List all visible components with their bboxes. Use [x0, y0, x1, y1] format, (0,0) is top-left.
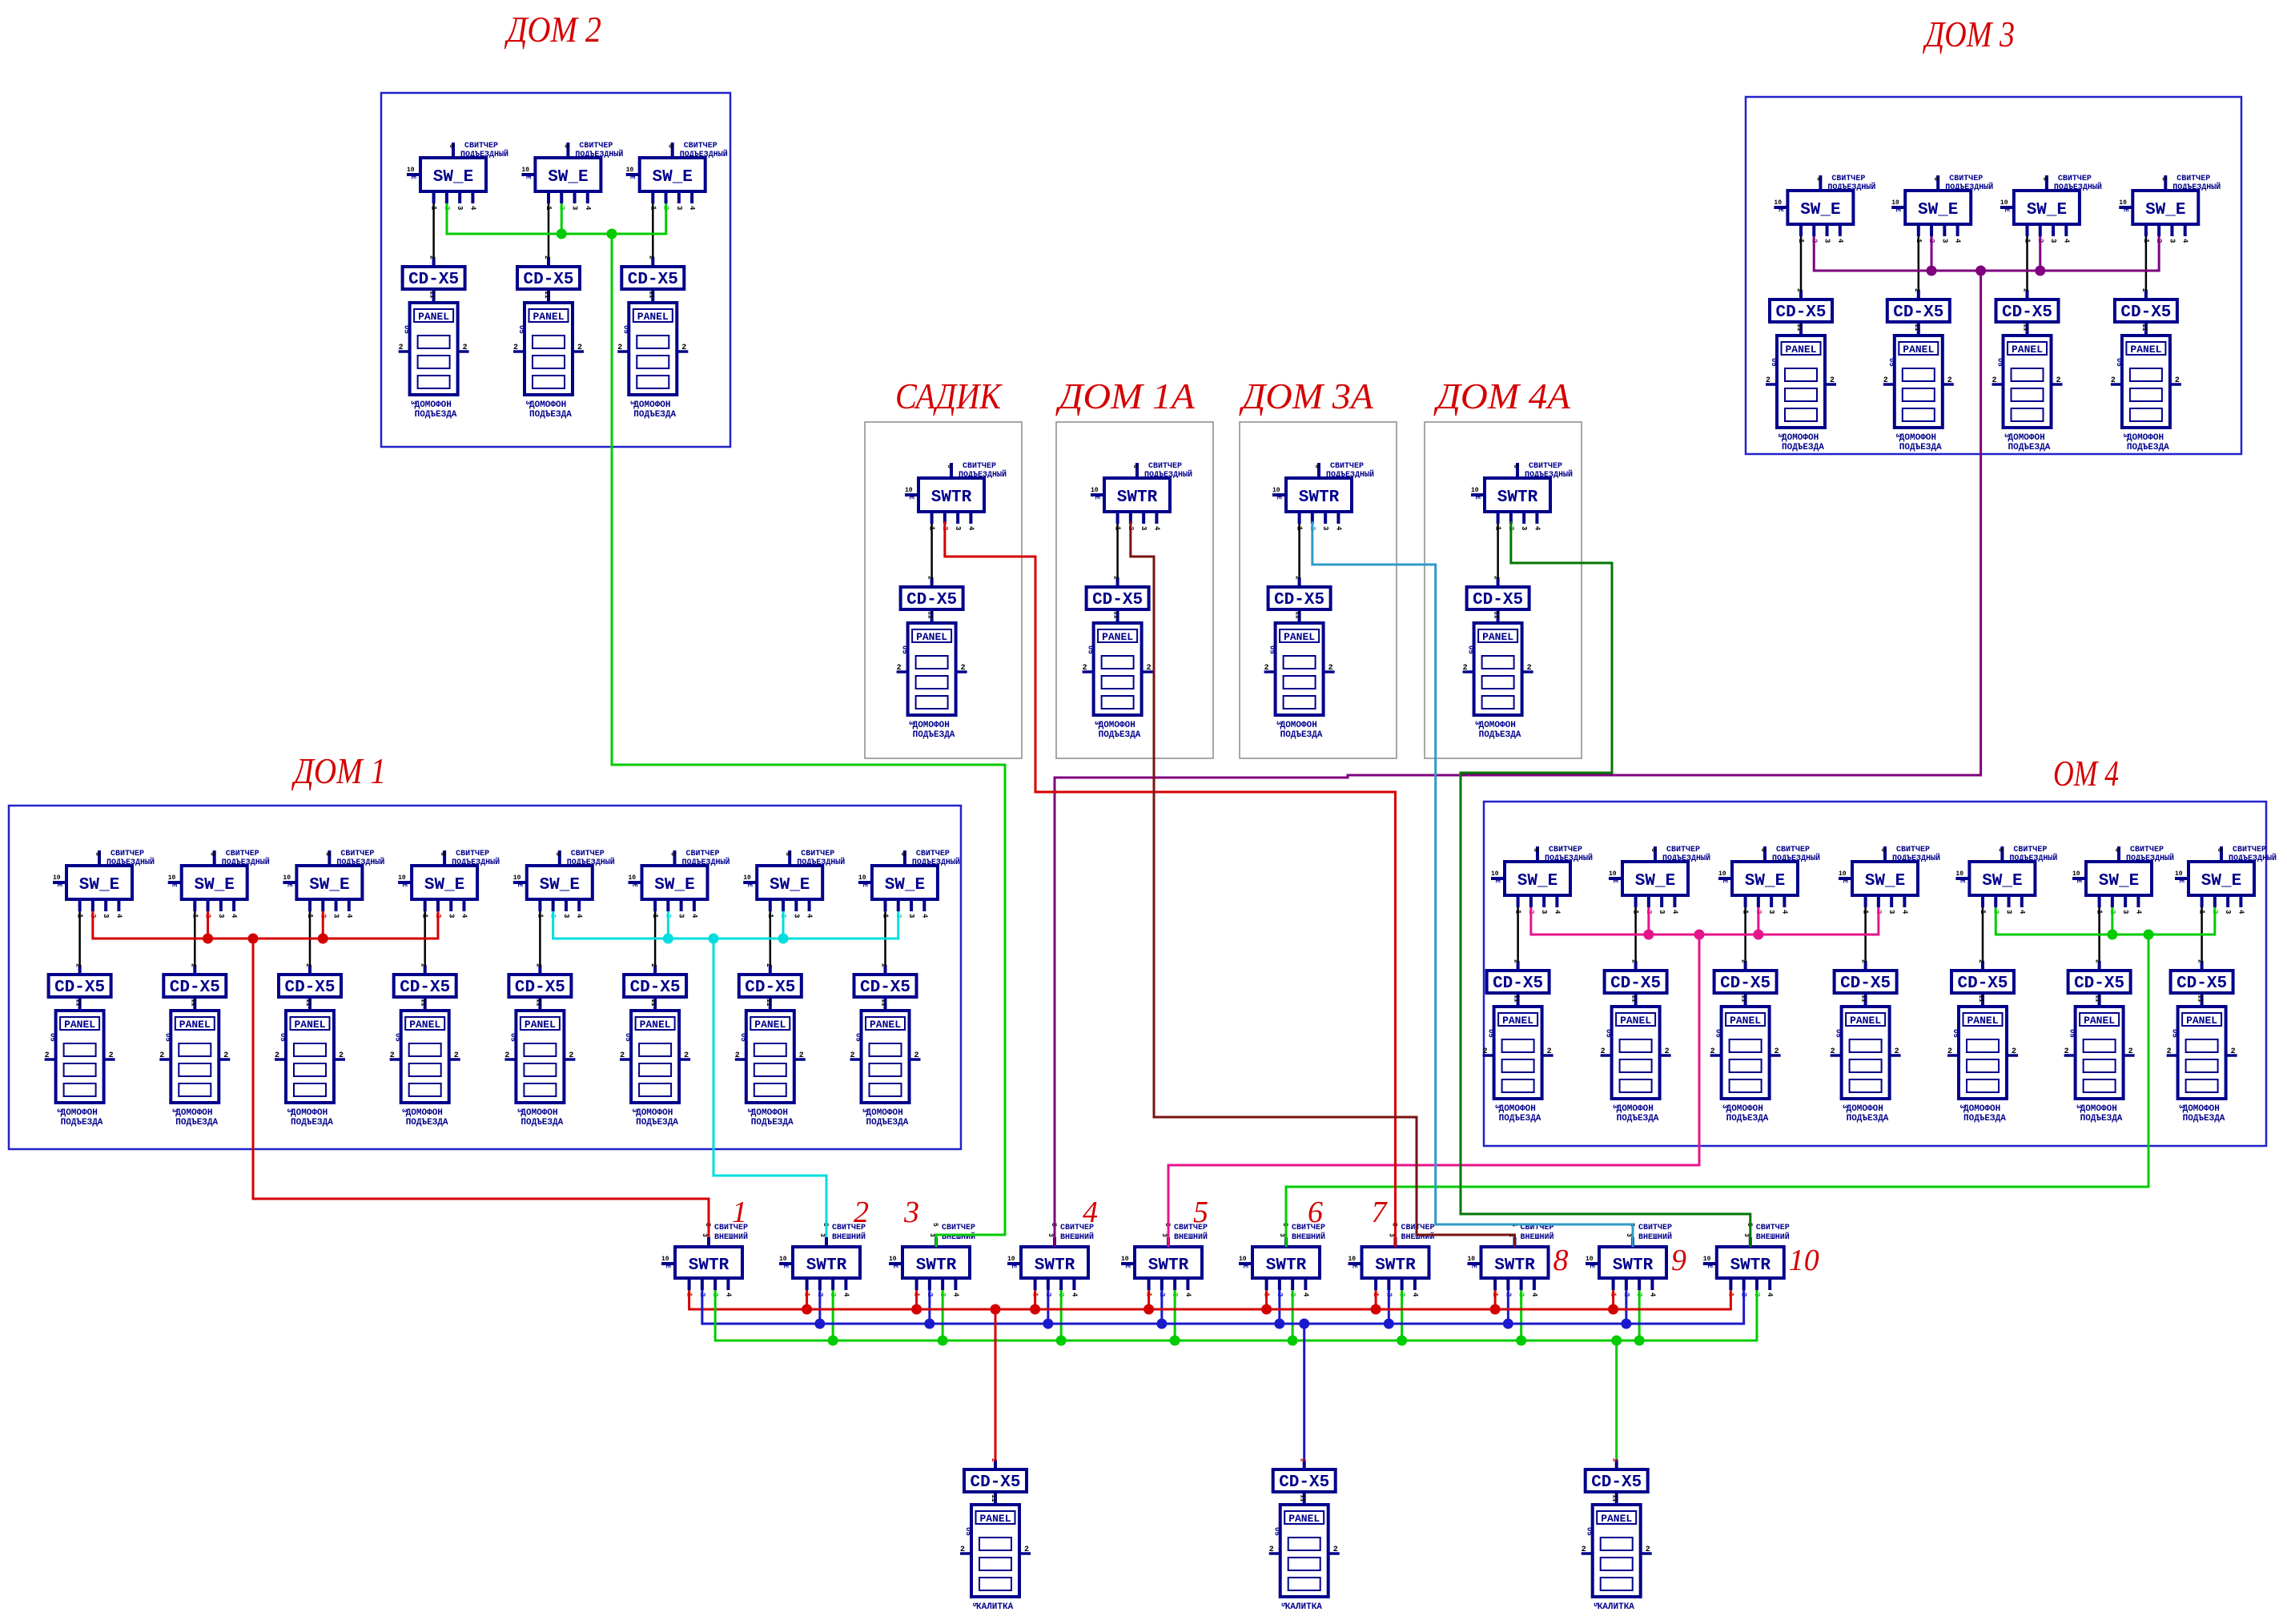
CD-X5 ДОМ 4А U1 top pin	[1493, 576, 1500, 587]
svg-text:PANEL: PANEL	[64, 1019, 95, 1031]
wire ДОМ1 U3 pin1 to CD-X5	[309, 911, 311, 965]
svg-text:3: 3	[1473, 721, 1481, 725]
svg-text:2: 2	[2140, 288, 2148, 292]
svg-text:ПОДЪЕЗДА: ПОДЪЕЗДА	[866, 1118, 909, 1128]
svg-text:4: 4	[1301, 1292, 1309, 1297]
svg-text:ПОДЪЕЗДА: ПОДЪЕЗДА	[415, 410, 457, 420]
svg-text:10: 10	[1891, 199, 1899, 207]
junction ДОМ 1 cyan bus unit6	[663, 934, 673, 944]
switch SW_E ДОМ4 U5	[1969, 862, 2035, 895]
panel ДОМ4 U1 right pin 2	[1542, 1047, 1553, 1056]
panel gate blue right pin 2	[1328, 1546, 1340, 1554]
converter CD-X5 ДОМ4 U6	[2068, 971, 2131, 993]
svg-text:U5: U5	[1996, 358, 2004, 367]
svg-text:2: 2	[1112, 576, 1119, 580]
svg-text:2: 2	[1582, 1546, 1586, 1554]
SWTR 3 bottom pin 3	[939, 1278, 947, 1296]
panel САДИК U1 left pin 2	[897, 664, 908, 673]
panel PANEL ДОМ4 U2	[1612, 1007, 1660, 1099]
svg-text:2: 2	[1795, 288, 1803, 292]
svg-text:SW_E: SW_E	[1865, 872, 1905, 890]
svg-text:4: 4	[1836, 239, 1844, 243]
converter CD-X5 ДОМ4 U1	[1487, 971, 1549, 993]
CD-X5 ДОМ3 U3 bottom pin 11	[2022, 322, 2029, 336]
ДОМ3 U1 left pin 10	[1774, 199, 1787, 212]
switch SWTR ДОМ 4А U1	[1485, 478, 1550, 512]
svg-text:2: 2	[1547, 1047, 1552, 1056]
svg-text:ПОДЪЕЗДНЫЙ: ПОДЪЕЗДНЫЙ	[1945, 181, 1993, 192]
svg-text:ПОДЪЕЗДА: ПОДЪЕЗДА	[2008, 443, 2051, 452]
ДОМ4 U2 left pin 10	[1609, 870, 1622, 883]
svg-text:4: 4	[1954, 239, 1962, 243]
junction blue bus SWTR 9	[1621, 1319, 1631, 1329]
ДОМ3 U1 bottom pin 4	[1836, 224, 1844, 243]
wire green bus external	[715, 1290, 1757, 1341]
ДОМ 3А U1 top pin 6	[1313, 463, 1320, 478]
CD-X5 ДОМ1 U4 top pin	[420, 963, 427, 975]
junction ДОМ 4 green bus drop	[2144, 930, 2154, 940]
svg-text:ДОМОФОН: ДОМОФОН	[2127, 433, 2164, 443]
CD-X5 ДОМ4 U6 top pin	[2094, 959, 2101, 971]
SWTR 2 bottom pin 4	[842, 1278, 850, 1297]
ДОМ2 U1 left pin 10	[407, 167, 420, 179]
svg-text:11: 11	[880, 999, 887, 1007]
svg-text:ДОМОФОН: ДОМОФОН	[529, 400, 566, 410]
junction red bus SWTR 8	[1490, 1304, 1501, 1315]
svg-text:4: 4	[1184, 1292, 1192, 1297]
svg-text:11: 11	[543, 291, 550, 299]
panel ДОМ2 U3 right pin 2	[677, 344, 688, 352]
svg-text:2: 2	[420, 963, 427, 967]
ДОМ2 U1 bottom pin 2	[443, 191, 451, 210]
CD-X5 ДОМ1 U2 bottom pin 11	[189, 997, 196, 1011]
ДОМ4 U5 left pin 10	[1955, 870, 1969, 883]
svg-text:3: 3	[1625, 1233, 1632, 1237]
SWTR 10 bottom pin 2	[1740, 1278, 1748, 1296]
ДОМ2 U1 bottom pin 3	[456, 191, 464, 210]
label ДОМОФОН ПОДЪЕЗДА ДОМ 3А U1	[1275, 721, 1323, 740]
ДОМ3 U2 bottom pin 1	[1915, 224, 1923, 243]
svg-text:3: 3	[1047, 1233, 1054, 1237]
ДОМ 3А U1 left pin 10	[1272, 487, 1286, 500]
wire red SWTR 9 pin1 to bus	[1612, 1290, 1614, 1309]
svg-text:2: 2	[1913, 288, 1920, 292]
junction ДОМ 1 cyan bus unit7	[778, 934, 789, 944]
wire blue SWTR 2 pin2 to bus	[818, 1290, 821, 1324]
ДОМ1 U6 left pin 10	[629, 874, 642, 887]
svg-text:10: 10	[743, 874, 751, 882]
switch SWTR 8	[1481, 1247, 1549, 1278]
label свитчер ДОМ3 U1	[1827, 175, 1875, 192]
wire blue SWTR 5 pin2 to bus	[1160, 1290, 1163, 1324]
wire ДОМ2 U3 pin1 to CD-X5	[652, 203, 654, 257]
svg-text:CD-X5: CD-X5	[906, 591, 957, 609]
svg-text:3: 3	[1742, 1233, 1750, 1237]
panel PANEL ДОМ1 U7	[746, 1011, 794, 1103]
svg-text:10: 10	[53, 874, 61, 882]
svg-text:СВИТЧЕР: СВИТЧЕР	[2058, 175, 2092, 183]
svg-text:11: 11	[1611, 1494, 1618, 1502]
converter CD-X5 ДОМ4 U5	[1951, 971, 2014, 993]
svg-text:3: 3	[818, 1233, 826, 1237]
ДОМ4 U2 bottom pin 4	[1670, 895, 1678, 915]
label ДОМОФОН ПОДЪЕЗДА ДОМ3 U2	[1894, 433, 1942, 452]
panel ДОМ1 U3 right pin 2	[334, 1051, 345, 1060]
svg-text:6: 6	[1512, 464, 1519, 468]
label свитчер ДОМ1 U5	[567, 850, 615, 867]
label свитчер ДОМ1 U2	[222, 850, 270, 867]
label ДОМОФОН ПОДЪЕЗДА ДОМ4 U3	[1721, 1104, 1769, 1124]
panel ДОМ 1А U1 right pin 2	[1142, 664, 1153, 673]
svg-text:6: 6	[667, 144, 674, 148]
svg-text:ПОДЪЕЗДНЫЙ: ПОДЪЕЗДНЫЙ	[575, 148, 623, 159]
svg-text:CD-X5: CD-X5	[523, 271, 573, 289]
svg-text:E: E	[1351, 1264, 1358, 1268]
ДОМ1 U8 bottom pin 3	[907, 899, 915, 918]
ДОМ2 U1 top pin 6	[448, 143, 455, 158]
svg-text:U5: U5	[854, 1033, 862, 1042]
ДОМ4 U2 top pin 6	[1650, 846, 1657, 862]
panel ДОМ1 U1 right pin 2	[104, 1051, 115, 1060]
svg-text:CD-X5: CD-X5	[1610, 975, 1661, 993]
panel PANEL gate blue	[1280, 1505, 1328, 1597]
junction ДОМ 4 pink bus drop	[1694, 930, 1705, 940]
svg-text:U5: U5	[2068, 1029, 2076, 1038]
svg-text:SW_E: SW_E	[1800, 201, 1840, 219]
wire red ДОМ 1 pin2 unit2	[207, 911, 209, 939]
switch SW_E ДОМ2 U2	[535, 158, 601, 191]
svg-text:E: E	[1894, 208, 1901, 212]
wire red ДОМ 1 pin2 unit3	[322, 911, 324, 939]
svg-text:ДОМ 2: ДОМ 2	[504, 9, 601, 50]
svg-text:ПОДЪЕЗДА: ПОДЪЕЗДА	[636, 1118, 678, 1128]
label КАЛИТКА gate blue	[1280, 1602, 1323, 1612]
converter CD-X5 ДОМ3 U1	[1770, 299, 1832, 322]
svg-text:E: E	[746, 883, 753, 887]
svg-text:11: 11	[1299, 1494, 1306, 1502]
wire ДОМ1 U6 pin1 to CD-X5	[654, 911, 657, 965]
CD-X5 ДОМ4 U1 top pin	[1513, 959, 1520, 971]
ДОМ3 U4 bottom pin 4	[2181, 224, 2189, 243]
svg-text:E: E	[1721, 879, 1728, 883]
svg-text:3: 3	[1658, 910, 1666, 914]
converter CD-X5 gate blue	[1273, 1469, 1336, 1492]
svg-text:6: 6	[2216, 848, 2223, 852]
wire ДОМ4 U7 pin1 to CD-X5	[2201, 907, 2203, 961]
svg-text:3: 3	[447, 914, 455, 918]
svg-text:E: E	[2177, 879, 2185, 883]
converter CD-X5 САДИК U1	[901, 587, 963, 609]
panel ДОМ1 U7 right pin 2	[794, 1051, 806, 1060]
panel ДОМ1 U1 left pin 2	[45, 1051, 56, 1060]
junction ДОМ 4 green bus unit6	[2107, 930, 2117, 940]
svg-text:3: 3	[2075, 1104, 2083, 1108]
ДОМ1 U1 bottom pin 1	[76, 899, 84, 919]
САДИК U1 bottom pin 1	[928, 512, 936, 531]
panel ДОМ 4А U1 left pin 2	[1463, 664, 1474, 673]
SWTR 9 bottom pin 3	[1635, 1278, 1643, 1296]
svg-text:SWTR: SWTR	[1375, 1256, 1416, 1275]
panel ДОМ3 U4 left pin 2	[2111, 376, 2122, 385]
svg-text:U5: U5	[901, 645, 909, 654]
svg-text:2: 2	[399, 344, 404, 352]
ДОМ 3А U1 bottom pin 3	[1321, 512, 1329, 530]
svg-text:PANEL: PANEL	[637, 311, 669, 323]
svg-text:3: 3	[2177, 1104, 2185, 1108]
panel PANEL ДОМ1 U1	[56, 1011, 104, 1103]
junction ДОМ 3 bus at unit2	[1927, 266, 1937, 276]
label ДОМОФОН ПОДЪЕЗДА ДОМ1 U6	[630, 1108, 678, 1128]
svg-text:2: 2	[74, 963, 82, 967]
svg-text:2: 2	[2231, 1047, 2236, 1056]
svg-text:4: 4	[2134, 910, 2142, 915]
switch SWTR 4	[1021, 1247, 1088, 1278]
wire red bus external	[689, 1290, 1731, 1309]
panel ДОМ4 U1 left pin 2	[1483, 1047, 1494, 1056]
svg-text:SW_E: SW_E	[1918, 201, 1958, 219]
svg-text:4: 4	[951, 1292, 959, 1297]
SWTR 8 top pin 5	[1507, 1223, 1517, 1247]
switch SW_E ДОМ3 U3	[2014, 191, 2080, 224]
SWTR 3 top pin 5	[928, 1223, 939, 1247]
CD-X5 ДОМ3 U4 top pin	[2140, 288, 2148, 299]
SWTR 3 left pin 10	[889, 1256, 902, 1268]
ДОМ3 U2 top pin 6	[1932, 175, 1939, 191]
ДОМ4 U6 bottom pin 4	[2134, 895, 2142, 915]
svg-text:6: 6	[94, 852, 101, 856]
svg-text:ПОДЪЕЗДА: ПОДЪЕЗДА	[175, 1118, 218, 1128]
SWTR 1 top pin 5	[701, 1223, 711, 1247]
label свитчер ДОМ 4А U1	[1525, 462, 1573, 480]
CD-X5 ДОМ2 U3 top pin	[647, 255, 654, 267]
ДОМ2 U3 top pin 6	[667, 143, 674, 158]
ДОМ1 U6 bottom pin 3	[677, 899, 685, 918]
svg-text:11: 11	[428, 291, 436, 299]
svg-text:SW_E: SW_E	[194, 876, 234, 894]
svg-text:2: 2	[1947, 1047, 1952, 1056]
label ДОМОФОН ПОДЪЕЗДА ДОМ4 U5	[1958, 1104, 2006, 1124]
panel ДОМ4 U3 right pin 2	[1770, 1047, 1781, 1056]
svg-text:ДОМ 3: ДОМ 3	[1923, 14, 2015, 54]
svg-text:3: 3	[2121, 433, 2129, 437]
svg-text:ВНЕШНИЙ: ВНЕШНИЙ	[1401, 1231, 1435, 1242]
svg-text:3: 3	[792, 914, 800, 918]
svg-text:11: 11	[1112, 611, 1119, 619]
svg-text:E: E	[171, 883, 178, 887]
svg-text:CD-X5: CD-X5	[1092, 591, 1143, 609]
svg-text:CD-X5: CD-X5	[2120, 303, 2171, 322]
svg-text:3: 3	[628, 400, 636, 404]
SWTR 5 top pin 5	[1160, 1223, 1171, 1247]
svg-text:3: 3	[907, 914, 915, 918]
svg-text:СВИТЧЕР: СВИТЧЕР	[916, 850, 950, 858]
svg-text:PANEL: PANEL	[1284, 631, 1315, 643]
svg-text:ДОМОФОН: ДОМОФОН	[1617, 1104, 1654, 1114]
ДОМ4 U5 bottom pin 2	[1992, 895, 2000, 914]
svg-text:E: E	[1275, 496, 1282, 500]
switch SW_E ДОМ4 U1	[1505, 862, 1570, 895]
svg-text:6: 6	[1131, 464, 1139, 468]
ДОМ1 U2 top pin 6	[209, 850, 216, 866]
SWTR 4 top pin 5	[1047, 1223, 1057, 1247]
junction blue bus SWTR 3	[924, 1319, 934, 1329]
ДОМ4 U7 bottom pin 1	[2198, 895, 2206, 915]
SWTR 4 bottom pin 4	[1070, 1278, 1078, 1297]
label свитчер ДОМ 1А U1	[1144, 462, 1192, 480]
panel PANEL ДОМ2 U2	[525, 303, 573, 395]
svg-text:ДОМОФОН: ДОМОФОН	[415, 400, 452, 410]
panel ДОМ1 U8 right pin 2	[910, 1051, 921, 1060]
svg-text:2: 2	[1831, 1047, 1835, 1056]
САДИК U1 bottom pin 4	[967, 512, 975, 531]
SWTR 6 bottom pin 1	[1263, 1278, 1271, 1297]
svg-text:11: 11	[304, 999, 311, 1007]
wire green ДОМ 4 pin2 unit6	[2111, 907, 2113, 935]
svg-text:E: E	[409, 175, 416, 179]
svg-text:2: 2	[735, 1051, 740, 1060]
svg-text:2: 2	[1710, 1047, 1715, 1056]
ДОМ2 U3 bottom pin 4	[688, 191, 696, 211]
svg-text:2: 2	[1630, 959, 1638, 963]
wire purple ДОМ 3 to SWTR 4	[1055, 271, 1981, 1247]
ДОМ4 U4 top pin 6	[1879, 846, 1887, 862]
ДОМ2 U1 bottom pin 4	[468, 191, 476, 211]
wire ДОМ4 U1 pin1 to CD-X5	[1517, 907, 1519, 961]
svg-text:8: 8	[1553, 1244, 1569, 1277]
label КАЛИТКА gate red	[971, 1602, 1014, 1612]
junction blue bus SWTR 8	[1503, 1319, 1513, 1329]
svg-text:ПОДЪЕЗДНЫЙ: ПОДЪЕЗДНЫЙ	[797, 856, 845, 867]
svg-text:2: 2	[850, 1051, 855, 1060]
svg-text:3: 3	[571, 206, 579, 210]
svg-text:ВНЕШНИЙ: ВНЕШНИЙ	[1756, 1231, 1790, 1242]
svg-text:PANEL: PANEL	[1730, 1015, 1761, 1027]
SWTR 7 bottom pin 2	[1385, 1278, 1393, 1296]
svg-text:U5: U5	[1605, 1029, 1613, 1038]
converter CD-X5 gate green	[1586, 1469, 1648, 1492]
svg-text:ДОМОФОН: ДОМОФОН	[406, 1108, 443, 1118]
svg-text:PANEL: PANEL	[1903, 344, 1934, 356]
label свитчер внешний 6	[1292, 1224, 1325, 1242]
ДОМ1 U7 left pin 10	[743, 874, 757, 887]
svg-text:2: 2	[2022, 288, 2029, 292]
svg-text:3: 3	[1493, 1104, 1501, 1108]
svg-text:E: E	[1706, 1264, 1713, 1268]
ДОМ1 U6 bottom pin 1	[651, 899, 659, 919]
CD-X5 ДОМ4 U5 bottom pin 11	[1977, 993, 1984, 1007]
switch SW_E ДОМ1 U4	[412, 866, 477, 899]
label свитчер ДОМ3 U4	[2172, 175, 2221, 192]
panel САДИК U1 right pin 2	[956, 664, 967, 673]
CD-X5 ДОМ4 U7 top pin	[2197, 959, 2204, 971]
svg-text:ДОМОФОН: ДОМОФОН	[521, 1108, 557, 1118]
CD-X5 ДОМ1 U7 top pin	[765, 963, 772, 975]
converter CD-X5 ДОМ 4А U1	[1467, 587, 1529, 609]
svg-text:ПОДЪЕЗДНЫЙ: ПОДЪЕЗДНЫЙ	[1326, 468, 1374, 480]
house box ДОМ 3А	[1240, 422, 1397, 758]
svg-text:11: 11	[1795, 324, 1803, 332]
SWTR 4 left pin 10	[1007, 1256, 1021, 1268]
svg-text:E: E	[285, 883, 292, 887]
label свитчер ДОМ2 U3	[680, 142, 728, 159]
wire green bus ДОМ 4	[1996, 907, 2215, 935]
svg-text:СВИТЧЕР: СВИТЧЕР	[942, 1224, 975, 1232]
CD-X5 ДОМ1 U8 top pin	[880, 963, 887, 975]
svg-text:E: E	[1611, 879, 1618, 883]
svg-text:U5: U5	[739, 1033, 747, 1042]
SWTR 6 bottom pin 3	[1288, 1278, 1296, 1296]
svg-text:SW_E: SW_E	[652, 168, 692, 187]
ДОМ1 U4 top pin 6	[439, 850, 446, 866]
CD-X5 gate blue top pin	[1299, 1458, 1306, 1469]
svg-text:CD-X5: CD-X5	[630, 979, 681, 997]
svg-text:6: 6	[1815, 177, 1822, 181]
ДОМ4 U6 left pin 10	[2072, 870, 2086, 883]
panel PANEL ДОМ4 U7	[2178, 1007, 2226, 1099]
svg-text:3: 3	[515, 1108, 523, 1112]
junction red bus SWTR 3	[911, 1304, 922, 1315]
panel ДОМ 3А U1 left pin 2	[1264, 664, 1276, 673]
svg-text:2: 2	[990, 1458, 997, 1462]
wire cyan ДОМ 1 pin2 unit7	[782, 911, 785, 939]
svg-text:10: 10	[1091, 487, 1099, 494]
svg-text:ВНЕШНИЙ: ВНЕШНИЙ	[1521, 1231, 1554, 1242]
svg-text:U5: U5	[2115, 358, 2123, 367]
svg-text:11: 11	[2197, 995, 2204, 1003]
svg-text:6: 6	[2160, 177, 2167, 181]
ДОМ 1А U1 left pin 10	[1091, 487, 1104, 500]
svg-text:3: 3	[55, 1108, 63, 1112]
ДОМ3 U3 bottom pin 4	[2062, 224, 2070, 243]
converter CD-X5 ДОМ 1А U1	[1087, 587, 1149, 609]
junction red bus SWTR 5	[1143, 1304, 1154, 1315]
svg-text:ДОМОФОН: ДОМОФОН	[1726, 1104, 1763, 1114]
ДОМ1 U4 left pin 10	[398, 874, 412, 887]
svg-text:2: 2	[1083, 664, 1087, 673]
svg-text:11: 11	[990, 1494, 997, 1502]
svg-text:2: 2	[577, 344, 582, 352]
ДОМ4 U1 top pin 6	[1532, 846, 1539, 862]
panel ДОМ3 U2 left pin 2	[1883, 376, 1895, 385]
ДОМ1 U7 bottom pin 2	[779, 899, 787, 918]
ДОМ4 U5 bottom pin 1	[1979, 895, 1987, 915]
svg-text:4: 4	[584, 206, 592, 211]
switch SW_E ДОМ2 U3	[640, 158, 705, 191]
label свитчер ДОМ1 U4	[452, 850, 500, 867]
svg-text:6: 6	[439, 852, 446, 856]
svg-text:ДОМОФОН: ДОМОФОН	[175, 1108, 212, 1118]
wire blue SWTR 8 pin2 to bus	[1507, 1290, 1509, 1324]
junction green bus SWTR 9	[1634, 1336, 1645, 1346]
junction red bus SWTR 4	[1030, 1304, 1040, 1315]
svg-text:4: 4	[724, 1292, 732, 1297]
wire purple bus ДОМ 3	[1814, 236, 2159, 271]
svg-text:SWTR: SWTR	[931, 488, 972, 507]
svg-text:5: 5	[1280, 1602, 1288, 1606]
svg-text:10: 10	[1718, 870, 1726, 878]
ДОМ3 U2 left pin 10	[1891, 199, 1905, 212]
svg-text:3: 3	[524, 400, 532, 404]
svg-text:10: 10	[513, 874, 521, 882]
svg-text:SW_E: SW_E	[548, 168, 588, 187]
wire cyan bus ДОМ 1	[553, 911, 898, 939]
svg-text:9: 9	[1671, 1244, 1686, 1277]
svg-text:SW_E: SW_E	[1517, 872, 1557, 890]
ДОМ 3А U1 bottom pin 2	[1308, 512, 1316, 530]
panel PANEL gate green	[1593, 1505, 1641, 1597]
CD-X5 ДОМ4 U5 top pin	[1977, 959, 1984, 971]
svg-text:ДОМОФОН: ДОМОФОН	[633, 400, 670, 410]
